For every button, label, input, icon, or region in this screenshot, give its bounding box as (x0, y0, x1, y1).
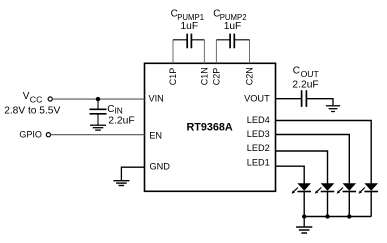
LED D1 (292, 183, 312, 216)
svg-text:LED2: LED2 (247, 143, 270, 153)
svg-text:LED3: LED3 (247, 129, 270, 139)
svg-text:VOUT: VOUT (244, 94, 270, 104)
LED D3 (337, 183, 357, 216)
wire LED1 (276, 166, 305, 183)
junction dot rail/LED3 (347, 214, 351, 218)
ground at LED rail (296, 227, 312, 233)
svg-text:IN: IN (115, 106, 123, 116)
node GPIO terminal (46, 133, 50, 137)
ground at COUT (326, 106, 340, 112)
svg-text:GND: GND (150, 161, 171, 171)
LED D2 (315, 183, 335, 216)
wire LED2 (276, 151, 328, 184)
label CPUMP2 value (213, 8, 246, 32)
ground below CIN (90, 125, 106, 130)
svg-text:OUT: OUT (301, 69, 320, 79)
svg-text:C1N: C1N (200, 67, 210, 85)
wire LED cathode rail (304, 216, 371, 218)
label CIN value (107, 104, 134, 127)
LED D4 (359, 183, 379, 216)
wire C1N stub (203, 40, 205, 64)
capacitor CPUMP2 (216, 34, 249, 49)
capacitor COUT (302, 90, 307, 107)
wire rail to ground (303, 217, 305, 227)
svg-text:2.8V to 5.5V: 2.8V to 5.5V (4, 106, 60, 117)
svg-text:VIN: VIN (149, 93, 164, 103)
svg-text:RT9368A: RT9368A (186, 121, 232, 133)
ground below GND pin (113, 181, 129, 186)
junction dot rail/LED1 (302, 214, 306, 218)
wire LED4 (276, 121, 372, 184)
wire C2N stub (249, 40, 251, 64)
svg-text:V: V (23, 91, 30, 102)
wire C2P stub (215, 40, 217, 64)
label CPUMP1 value (171, 8, 204, 32)
wire GND pin to ground (121, 167, 144, 180)
op-amp U1 RT9368A IC body (145, 63, 276, 191)
svg-text:2.2uF: 2.2uF (292, 80, 318, 91)
svg-text:EN: EN (149, 130, 162, 140)
svg-text:C: C (293, 66, 300, 77)
junction dot VCC/CIN (96, 97, 100, 101)
wire COUT to ground (306, 99, 333, 106)
svg-text:CC: CC (30, 94, 43, 104)
wire VOUT to COUT (276, 98, 302, 100)
svg-text:C: C (107, 104, 114, 115)
svg-text:1uF: 1uF (224, 21, 242, 32)
label VCC (4, 91, 60, 117)
svg-text:2.2uF: 2.2uF (108, 115, 134, 126)
wire VCC to VIN (52, 98, 144, 100)
capacitor CIN (90, 99, 107, 125)
wire GPIO to EN (50, 134, 144, 136)
svg-text:GPIO: GPIO (19, 130, 42, 140)
junction dot rail/LED2 (325, 214, 329, 218)
svg-text:1uF: 1uF (181, 21, 199, 32)
label COUT value (292, 66, 319, 91)
wire C1P stub (172, 40, 174, 64)
svg-text:C2P: C2P (212, 68, 222, 86)
svg-text:LED1: LED1 (247, 158, 270, 168)
svg-text:C1P: C1P (168, 68, 178, 86)
node VCC terminal (48, 97, 52, 101)
wire LED3 (276, 135, 350, 184)
svg-text:C2N: C2N (245, 67, 255, 85)
capacitor CPUMP1 (173, 34, 204, 49)
svg-text:LED4: LED4 (247, 115, 270, 125)
